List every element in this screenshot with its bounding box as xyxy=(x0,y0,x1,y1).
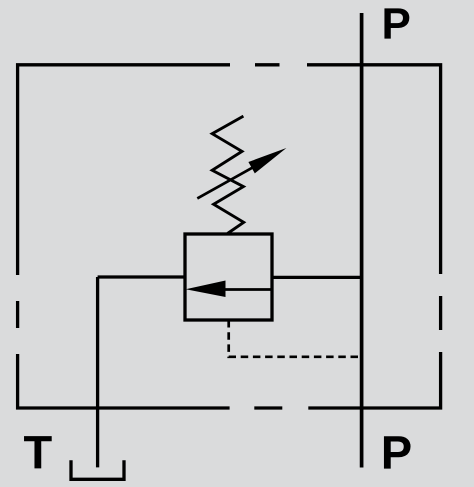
enclosure border bottom-left corner segment xyxy=(18,354,230,408)
label P top xyxy=(384,8,409,38)
enclosure border top-right corner segment xyxy=(307,65,441,274)
valve flow arrowhead xyxy=(186,281,226,298)
valve flow path line xyxy=(224,288,272,291)
adjustment arrowhead xyxy=(248,148,286,173)
wire T line vertical xyxy=(96,277,99,467)
valve body box V1 xyxy=(185,234,272,320)
enclosure border bottom-right corner segment xyxy=(308,352,440,408)
wire valve right port to P line xyxy=(272,276,362,279)
label P bottom xyxy=(384,436,411,468)
pilot line dashed xyxy=(229,320,361,357)
wire left port to valve xyxy=(98,275,185,278)
wire P line vertical xyxy=(360,13,364,468)
enclosure border bottom dash xyxy=(254,406,282,409)
enclosure border left dash xyxy=(16,301,19,328)
label T xyxy=(24,436,52,468)
tank symbol xyxy=(71,460,124,479)
enclosure border top dash xyxy=(255,63,280,66)
enclosure border top-left corner segment xyxy=(18,65,230,275)
adjustment arrow shaft xyxy=(197,167,253,198)
enclosure border right dash xyxy=(439,296,442,330)
spring zigzag xyxy=(212,116,244,233)
